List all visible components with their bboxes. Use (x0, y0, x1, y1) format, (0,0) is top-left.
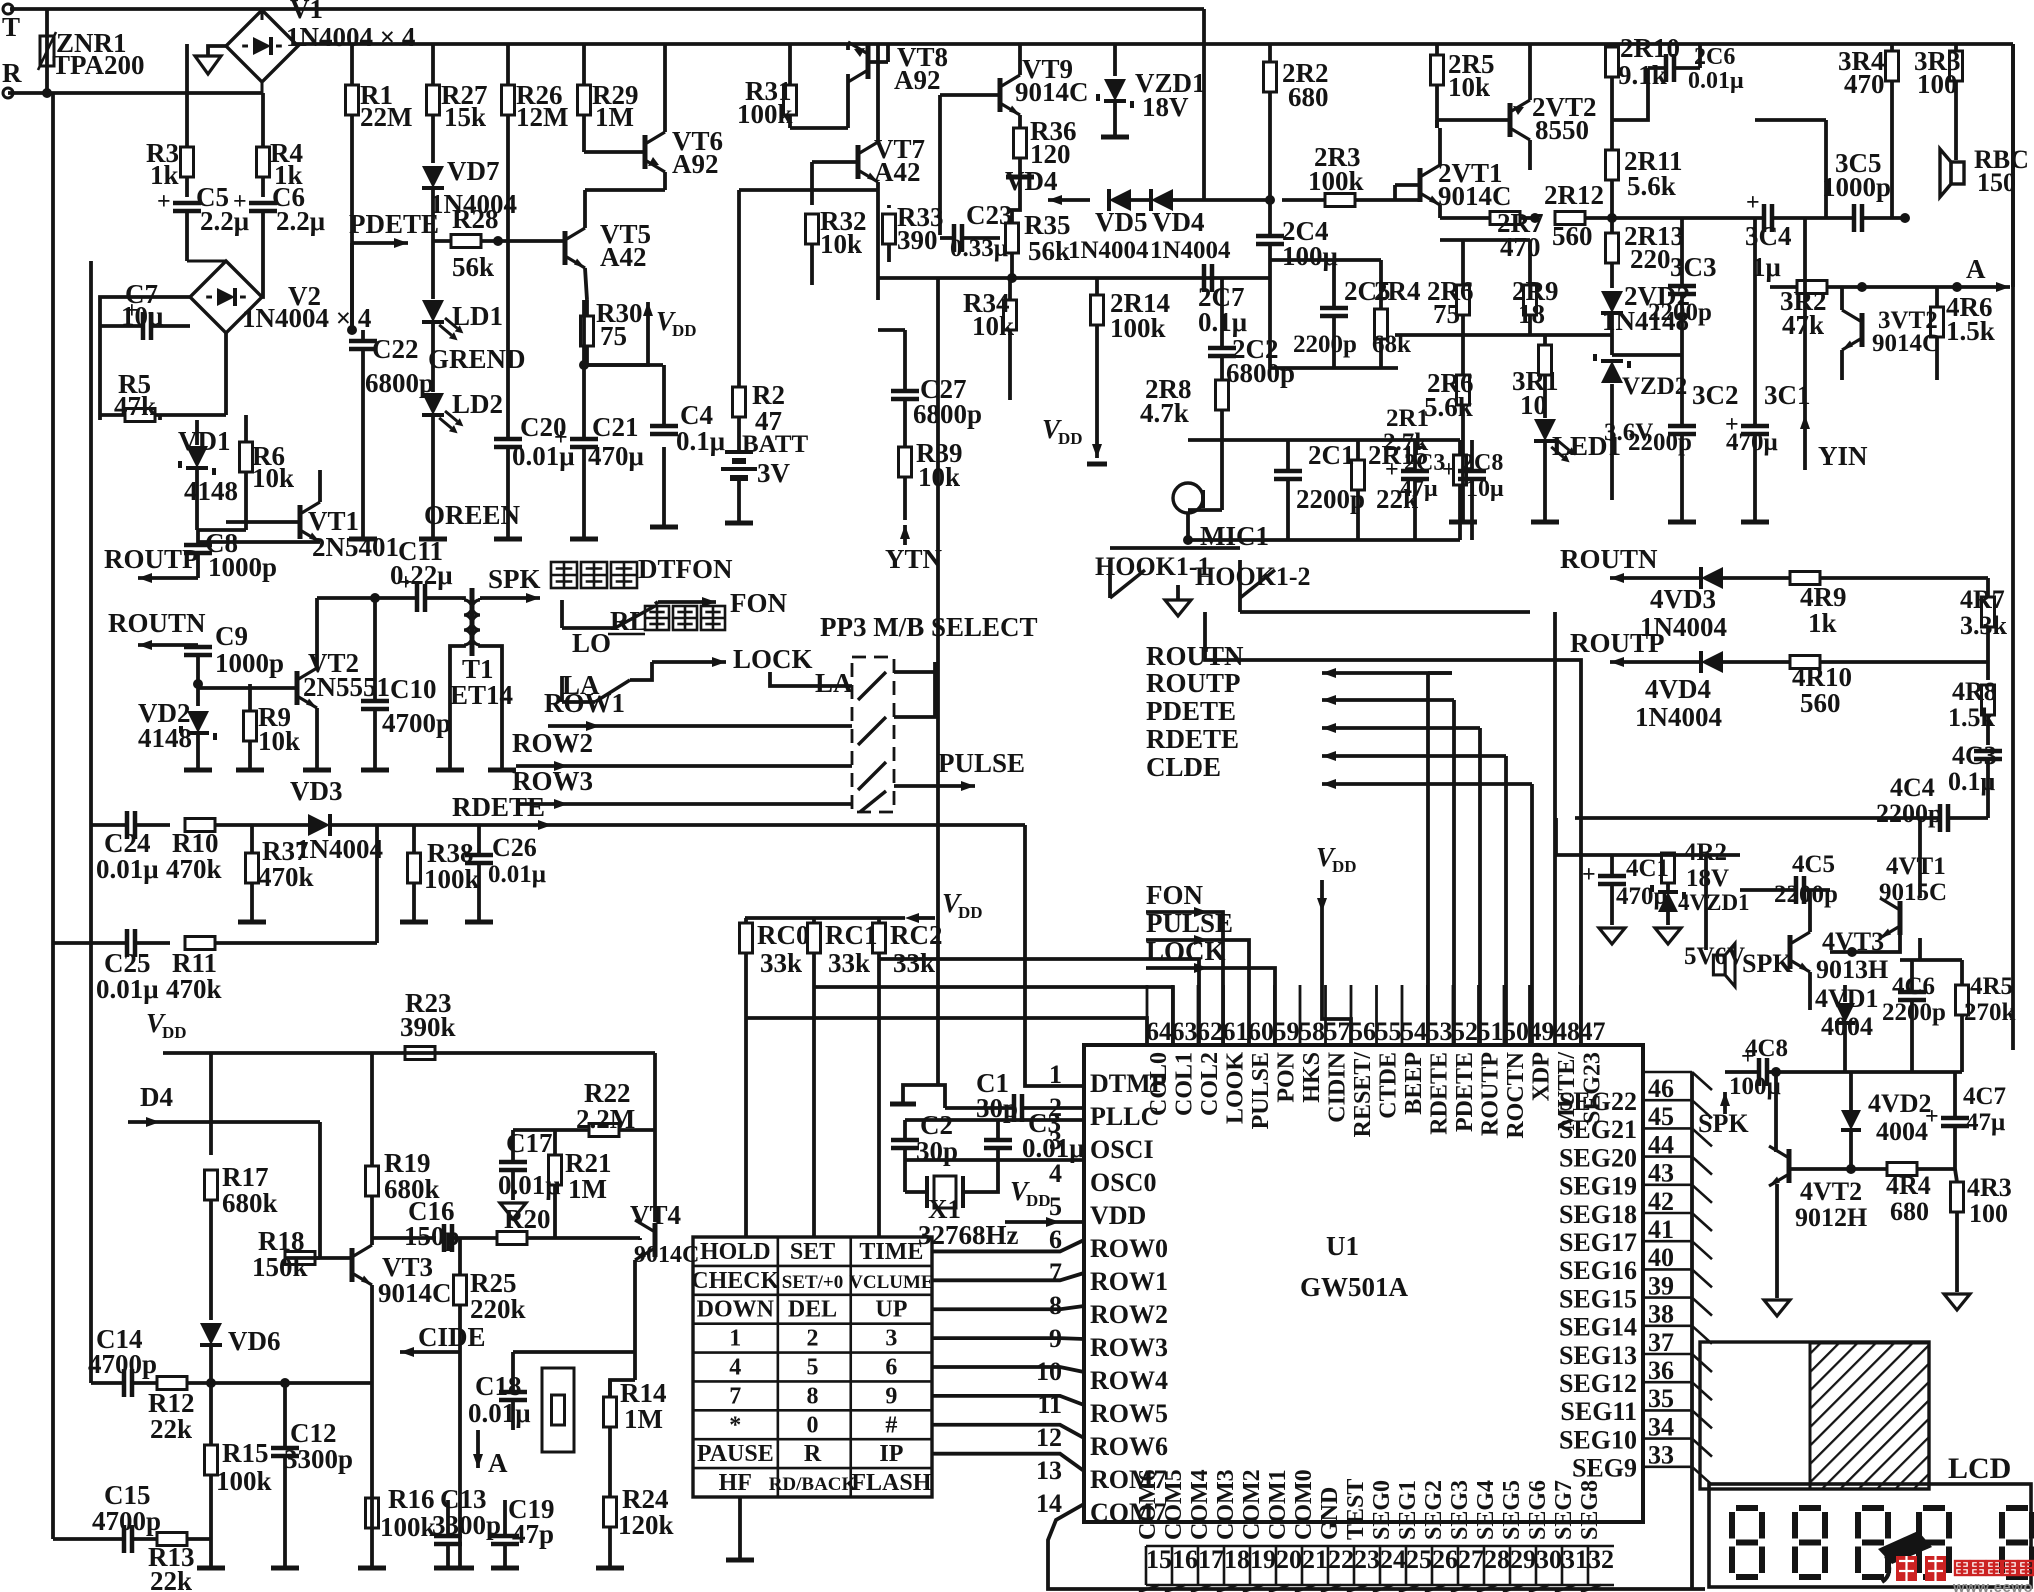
svg-text:C21: C21 (592, 412, 639, 442)
wire vertical drop from top rail at x1204 (1202, 9, 1206, 200)
svg-text:ROW1: ROW1 (1090, 1267, 1168, 1296)
svg-text:20: 20 (1276, 1545, 1302, 1574)
svg-text:UP: UP (875, 1297, 907, 1323)
capacitor C1 30p (890, 1068, 1084, 1123)
resistor 2R15 22k (1352, 440, 1429, 540)
svg-text:75: 75 (600, 321, 627, 351)
svg-text:9: 9 (1049, 1324, 1062, 1353)
svg-text:4700p: 4700p (382, 708, 451, 738)
svg-text:SEG23: SEG23 (1580, 1052, 1606, 1124)
svg-text:1N4004: 1N4004 (1068, 237, 1149, 264)
svg-text:4C7: 4C7 (1963, 1083, 2006, 1110)
wire keypad row1 to IC (932, 1273, 1084, 1280)
svg-text:23: 23 (1354, 1545, 1380, 1574)
wire COL2 to pin62 (879, 959, 1199, 1047)
wire second rail y44 (296, 42, 2013, 46)
svg-text:47: 47 (1580, 1017, 1606, 1046)
svg-text:1.5k: 1.5k (1948, 703, 1996, 732)
diode VD3 1N4004 (290, 776, 390, 864)
svg-text:60: 60 (1248, 1017, 1274, 1046)
svg-text:2200p: 2200p (1882, 999, 1946, 1026)
svg-text:+: + (233, 189, 247, 215)
svg-text:+: + (1746, 190, 1760, 216)
capacitor C10 4700p (361, 593, 451, 770)
svg-text:3: 3 (885, 1326, 897, 1352)
svg-text:0.01μ: 0.01μ (468, 1398, 531, 1428)
resistor R5 (100, 369, 226, 422)
svg-text:10k: 10k (1448, 72, 1490, 102)
svg-text:COL2: COL2 (1197, 1052, 1223, 1116)
svg-text:SEG12: SEG12 (1559, 1369, 1637, 1398)
capacitor C16 150p (404, 1196, 496, 1252)
svg-text:BEEP: BEEP (1401, 1052, 1427, 1115)
svg-text:ET14: ET14 (450, 680, 513, 710)
svg-text:4: 4 (1049, 1159, 1062, 1188)
resistor 2R13 220 (1606, 218, 1685, 288)
svg-text:IP: IP (879, 1441, 903, 1467)
svg-text:37: 37 (1648, 1328, 1674, 1357)
svg-text:33k: 33k (760, 948, 802, 978)
svg-text:59: 59 (1274, 1017, 1300, 1046)
svg-text:COM1: COM1 (1265, 1469, 1291, 1540)
svg-text:2N5551: 2N5551 (303, 672, 390, 702)
svg-text:22: 22 (1328, 1545, 1354, 1574)
svg-text:36: 36 (1648, 1356, 1674, 1385)
svg-text:53: 53 (1427, 1017, 1453, 1046)
resistor R34 (963, 278, 1017, 400)
capacitor C17 0.01u (498, 1128, 561, 1219)
svg-text:9014C: 9014C (1438, 181, 1512, 211)
switch S1 in block (858, 672, 886, 700)
svg-text:GW501A: GW501A (1300, 1272, 1409, 1302)
svg-text:ROUTP: ROUTP (1570, 628, 1665, 658)
svg-text:HF: HF (719, 1470, 752, 1496)
node RDETE arrow to IC (1146, 724, 1506, 1045)
svg-text:680k: 680k (222, 1188, 278, 1218)
resistor R17 680k (205, 1053, 278, 1320)
svg-text:CHECK: CHECK (691, 1268, 779, 1294)
svg-text:XDP: XDP (1529, 1052, 1555, 1101)
node LO (572, 628, 611, 658)
svg-text:OREEN: OREEN (424, 500, 521, 530)
svg-text:LA: LA (815, 668, 853, 698)
svg-text:2R1: 2R1 (1386, 405, 1429, 432)
wire right edge vertical (2011, 44, 2015, 1050)
terminal T (2, 4, 20, 42)
svg-text:SEG17: SEG17 (1559, 1228, 1637, 1257)
svg-text:470k: 470k (166, 854, 222, 884)
wire C7 node (98, 326, 102, 420)
svg-text:25: 25 (1406, 1545, 1432, 1574)
wire VT3 collector to C16 (372, 1236, 436, 1240)
svg-text:100: 100 (1969, 1199, 2008, 1228)
wire bottom row link (374, 1473, 378, 1477)
node ROW3 arrow (512, 766, 852, 809)
svg-text:LO: LO (572, 628, 611, 658)
svg-text:1.5k: 1.5k (1946, 316, 1995, 346)
svg-text:2R12: 2R12 (1544, 180, 1604, 210)
capacitor 3C3 2200p (1648, 218, 1717, 355)
svg-text:9015C: 9015C (1879, 879, 1947, 906)
svg-text:SEG15: SEG15 (1559, 1284, 1637, 1313)
svg-text:FON: FON (730, 588, 787, 618)
svg-text:100k: 100k (380, 1512, 436, 1542)
svg-text:2.2μ: 2.2μ (276, 206, 325, 236)
svg-text:4004: 4004 (1821, 1012, 1873, 1041)
capacitor 4C4 2200p (1810, 773, 1988, 832)
svg-text:100k: 100k (737, 99, 793, 129)
ground bar bottom center (726, 1497, 754, 1560)
svg-text:4004: 4004 (1876, 1117, 1928, 1146)
transistor 4VT2 9012H (1764, 1146, 1867, 1316)
svg-text:62: 62 (1197, 1017, 1223, 1046)
svg-text:22M: 22M (360, 102, 412, 132)
node ROUTP arrow r6 (1570, 628, 1700, 667)
svg-text:9014C: 9014C (378, 1278, 452, 1308)
wire VT4 collector up (653, 1053, 657, 1222)
svg-text:56: 56 (1350, 1017, 1376, 1046)
svg-text:SEG3: SEG3 (1447, 1480, 1473, 1540)
resistor 2R7 470 (1440, 208, 1544, 262)
svg-text:50: 50 (1503, 1017, 1529, 1046)
transformer T1 ET14 (436, 588, 516, 770)
switch block dashed box (852, 657, 894, 812)
wire C18 rect link (513, 1350, 635, 1354)
svg-text:4R3: 4R3 (1967, 1173, 2012, 1202)
capacitor C2 30p (891, 1110, 1084, 1166)
svg-text:56k: 56k (1028, 236, 1070, 266)
resistor R28 (433, 204, 565, 282)
resistor 2R12 560 (1544, 180, 1617, 251)
svg-text:4.7k: 4.7k (1140, 398, 1189, 428)
svg-text:41: 41 (1648, 1215, 1674, 1244)
resistor 3R3 100 (1914, 44, 1963, 148)
svg-text:470k: 470k (166, 974, 222, 1004)
svg-text:120k: 120k (618, 1510, 674, 1540)
wire 4C1 top rail (1556, 853, 1740, 857)
resistor R24 120k (596, 1480, 674, 1568)
capacitor 4C5 2200p (1740, 851, 1838, 908)
svg-text:V1: V1 (290, 0, 323, 24)
svg-text:18: 18 (1224, 1545, 1250, 1574)
svg-text:47k: 47k (1782, 310, 1824, 340)
node A arrow down (473, 1430, 508, 1478)
svg-text:470: 470 (1844, 69, 1885, 99)
varistor ZNR1 (38, 9, 145, 98)
capacitor C13 3300p (432, 1484, 501, 1568)
svg-text:6800p: 6800p (913, 399, 982, 429)
diode VD4 1N4004 (1150, 189, 1275, 264)
svg-text:22k: 22k (150, 1414, 192, 1444)
resistor 4R6 1.5k (1931, 287, 1995, 380)
battery 3V (721, 452, 791, 523)
svg-text:PAUSE: PAUSE (697, 1441, 774, 1467)
svg-text:38: 38 (1648, 1300, 1674, 1329)
wire R terminal rail (8, 91, 262, 95)
svg-text:ROW6: ROW6 (1090, 1432, 1168, 1461)
svg-text:390k: 390k (400, 1012, 456, 1042)
svg-text:19: 19 (1250, 1545, 1276, 1574)
node LOCK arrow c (630, 644, 813, 680)
svg-text:SEG7: SEG7 (1551, 1480, 1577, 1540)
LCD hatched connector block (1700, 1342, 1929, 1489)
resistor 2R14 100k (1091, 278, 1171, 420)
svg-text:C18: C18 (475, 1371, 522, 1401)
svg-text:www.eeworm.com: www.eeworm.com (1952, 1579, 2034, 1592)
svg-text:COM6: COM6 (1135, 1469, 1161, 1540)
svg-text:22k: 22k (150, 1566, 192, 1592)
svg-text:FON: FON (1146, 880, 1203, 910)
zener VZD1 18V (1098, 44, 1206, 137)
svg-text:A42: A42 (600, 242, 647, 272)
svg-text:DOWN: DOWN (697, 1297, 775, 1323)
svg-text:47p: 47p (512, 1519, 554, 1549)
wire bottom-left rail (51, 1537, 55, 1541)
svg-text:SEG4: SEG4 (1473, 1480, 1499, 1540)
svg-text:150: 150 (1977, 168, 2016, 197)
label PP3 M/B SELECT (820, 612, 1038, 642)
diode VD1 4148 (178, 420, 238, 530)
wire R35 top to VT9 (1010, 175, 1020, 210)
resistor R16 100k (366, 1484, 436, 1542)
wire mic bottom rail (1188, 538, 1460, 542)
resistor R29 (578, 44, 639, 135)
svg-text:DD: DD (1332, 857, 1357, 876)
wire LA to block (812, 684, 852, 688)
svg-text:SEG8: SEG8 (1577, 1480, 1603, 1540)
svg-text:CIDIN: CIDIN (1325, 1051, 1351, 1122)
svg-text:43: 43 (1648, 1159, 1674, 1188)
bridge rectifier V2 (187, 261, 371, 333)
transistor VT6 A92 (584, 44, 723, 190)
svg-text:COM0: COM0 (1291, 1469, 1317, 1540)
resistor RC1 33k (808, 918, 878, 1237)
svg-text:R15: R15 (222, 1438, 269, 1468)
svg-text:COM2: COM2 (1239, 1469, 1265, 1540)
svg-text:VD6: VD6 (228, 1326, 281, 1356)
node ROUTP arrow to IC (1146, 668, 1454, 1045)
svg-text:COM4: COM4 (1187, 1469, 1213, 1540)
svg-text:PDETE: PDETE (349, 209, 439, 239)
svg-text:3: 3 (1049, 1126, 1062, 1155)
resistor R31 (737, 44, 797, 129)
wire 4C4 vertical left (1554, 818, 1558, 855)
wire R19 top (370, 1053, 374, 1100)
svg-text:A92: A92 (672, 149, 719, 179)
svg-text:SEG13: SEG13 (1559, 1341, 1637, 1370)
bridge rectifier V1 (226, 0, 415, 93)
capacitor 4C6 2200p (1882, 960, 1946, 1072)
svg-text:ROUTP: ROUTP (1146, 668, 1241, 698)
node VDD arrow up (643, 302, 697, 345)
svg-text:0.1μ: 0.1μ (676, 426, 725, 456)
node RDETE arrow (390, 792, 552, 830)
wire block right rail (894, 672, 935, 717)
svg-text:ROUTP: ROUTP (104, 544, 199, 574)
wire left vertical Va (51, 93, 55, 1539)
svg-text:120: 120 (1030, 139, 1071, 169)
svg-text:4C4: 4C4 (1890, 773, 1935, 802)
svg-text:27: 27 (1458, 1545, 1484, 1574)
svg-text:4C6: 4C6 (1892, 973, 1935, 1000)
svg-text:33k: 33k (828, 948, 870, 978)
transistor 3VT2 9014C (1842, 287, 1940, 380)
resistor 4R9 1k (1790, 572, 1988, 639)
wire mid rail y335 (1395, 333, 1612, 337)
resistor R26 (502, 44, 569, 235)
svg-text:PULSE: PULSE (938, 748, 1025, 778)
svg-text:HOOK1-1: HOOK1-1 (1095, 552, 1211, 581)
resistor R38 100k (400, 825, 480, 922)
svg-text:R28: R28 (452, 204, 499, 234)
svg-text:2: 2 (807, 1326, 819, 1352)
svg-text:R16: R16 (388, 1484, 435, 1514)
resistor R30 (581, 298, 643, 365)
svg-text:+: + (157, 189, 171, 215)
svg-text:4VD3: 4VD3 (1650, 584, 1716, 614)
node CIDE arrow (400, 1322, 486, 1357)
svg-text:51: 51 (1478, 1017, 1504, 1046)
svg-text:SPK: SPK (1698, 1109, 1749, 1138)
node PULSE arrow center (1146, 908, 1249, 1045)
svg-text:SEG6: SEG6 (1525, 1480, 1551, 1540)
node VDD arrow keypad (745, 888, 983, 923)
resistor R22 2.2M (513, 1078, 655, 1137)
svg-text:VD7: VD7 (447, 156, 500, 186)
capacitor C24 0.01u (91, 811, 170, 884)
svg-text:SEG11: SEG11 (1560, 1397, 1637, 1426)
capacitor C7 (100, 279, 190, 340)
node ROW2 arrow (512, 728, 852, 771)
svg-text:RC0: RC0 (757, 920, 810, 950)
svg-text:LED1: LED1 (1552, 431, 1621, 461)
ground bar under C20 (494, 521, 522, 539)
svg-text:61: 61 (1223, 1017, 1249, 1046)
svg-text:FLASH: FLASH (851, 1470, 931, 1496)
svg-text:1N4004: 1N4004 (1150, 237, 1231, 264)
svg-text:3C4: 3C4 (1745, 221, 1792, 251)
node VDD region4 (146, 1008, 187, 1042)
transistor VT3 9014C (352, 1196, 452, 1568)
svg-text:17: 17 (1198, 1545, 1224, 1574)
svg-text:D4: D4 (140, 1082, 173, 1112)
svg-text:8: 8 (807, 1383, 819, 1409)
switch HOOK1-1 (1095, 552, 1211, 616)
svg-text:1000p: 1000p (208, 552, 277, 582)
svg-text:+: + (1741, 1044, 1755, 1070)
svg-text:9012H: 9012H (1795, 1203, 1867, 1232)
svg-text:PON: PON (1274, 1051, 1300, 1102)
svg-text:CTDE: CTDE (1376, 1052, 1402, 1119)
svg-text:4VT1: 4VT1 (1886, 853, 1946, 880)
svg-text:2.7k: 2.7k (1383, 429, 1428, 456)
resistor R4 (257, 93, 304, 197)
wire VT4 emitter to R14 (610, 1380, 635, 1397)
wire VT2 collector rail (317, 596, 417, 600)
wire 2R12 to 3C4 (1612, 216, 1747, 220)
resistor R6 (240, 415, 295, 530)
svg-text:16: 16 (1172, 1545, 1198, 1574)
svg-text:TPA200: TPA200 (52, 50, 145, 80)
svg-text:4R7: 4R7 (1960, 585, 2005, 614)
resistor R14 1M (604, 1378, 667, 1480)
node ROUTN arrow r6 (1560, 544, 1700, 583)
svg-text:LD1: LD1 (452, 301, 503, 331)
node SPK arrow bottom (1698, 1073, 1781, 1138)
svg-text:57: 57 (1325, 1017, 1351, 1046)
wire VT5 emitter rail (587, 363, 663, 367)
svg-text:680: 680 (1890, 1197, 1929, 1226)
transistor 4VT1 9015C (1879, 818, 1947, 960)
wire keypad row0 to IC (932, 1240, 1084, 1251)
svg-text:HKS: HKS (1299, 1052, 1325, 1103)
svg-text:4C3: 4C3 (1952, 741, 1997, 770)
capacitor C23 (940, 200, 1013, 262)
capacitor C27 (891, 330, 982, 430)
wire VD5-VD4 link (1131, 198, 1151, 202)
switch S3 in block (858, 762, 886, 790)
svg-text:2: 2 (1049, 1093, 1062, 1122)
resistor 4R10 560 (1790, 656, 1988, 719)
resistor 4R4 680 (1809, 1163, 1955, 1227)
speaker RBC 150 (1940, 145, 2029, 197)
svg-text:#: # (885, 1412, 897, 1438)
svg-text:LOOK: LOOK (1223, 1052, 1249, 1124)
LED LD2 (422, 389, 521, 530)
capacitor C9 1000p (184, 621, 284, 684)
svg-text:1M: 1M (624, 1404, 663, 1434)
wire 3C4 node vertical (1824, 120, 1828, 218)
svg-text:COL1: COL1 (1172, 1052, 1198, 1116)
svg-text:DD: DD (672, 321, 697, 340)
svg-text:PULSE: PULSE (1146, 908, 1233, 938)
IC bottom pins (1135, 1469, 1614, 1592)
svg-text:2200p: 2200p (1293, 331, 1357, 358)
svg-text:100k: 100k (1308, 166, 1364, 196)
svg-text:6: 6 (885, 1355, 897, 1381)
transistor VT2 2N5551 (198, 598, 390, 770)
wire DTMP route (1025, 825, 1084, 1086)
svg-text:DD: DD (1058, 429, 1083, 448)
wire keypad row2 to IC (932, 1306, 1084, 1309)
svg-text:0: 0 (807, 1412, 819, 1438)
svg-text:CLDE: CLDE (1146, 752, 1221, 782)
svg-text:4148: 4148 (138, 723, 192, 753)
svg-text:680: 680 (1288, 82, 1329, 112)
wire block out LOCK (894, 662, 935, 672)
svg-text:ROW1: ROW1 (544, 688, 625, 718)
resistor R13 22k (148, 1533, 211, 1592)
diode 4VD2 4004 (1841, 1072, 1932, 1174)
wire COL1 to pin63 (814, 987, 1173, 1047)
wire C5 to V2 top (224, 261, 228, 262)
svg-text:+: + (1582, 862, 1596, 888)
svg-text:9013H: 9013H (1816, 955, 1888, 984)
svg-text:COL0: COL0 (1146, 1052, 1172, 1116)
svg-text:DD: DD (958, 903, 983, 922)
capacitor C12 3300p (271, 1378, 353, 1568)
svg-text:0.22μ: 0.22μ (390, 560, 453, 590)
resistor R15 100k (197, 1383, 272, 1568)
svg-text:390: 390 (897, 225, 938, 255)
svg-text:3300p: 3300p (432, 1510, 501, 1540)
svg-text:8: 8 (1049, 1291, 1062, 1320)
svg-text:47μ: 47μ (1966, 1109, 2005, 1136)
svg-text:100k: 100k (216, 1466, 272, 1496)
wire top rail from T terminal (10, 7, 1204, 11)
svg-text:150p: 150p (404, 1221, 460, 1251)
svg-text:49: 49 (1529, 1017, 1555, 1046)
